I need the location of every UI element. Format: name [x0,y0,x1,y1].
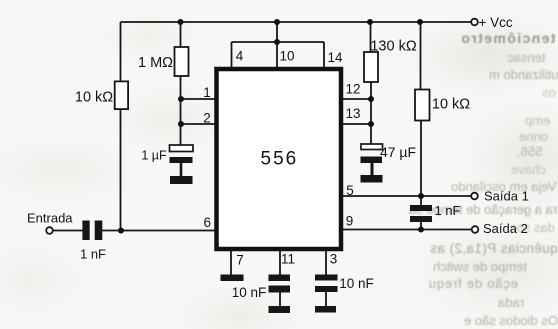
svg-text:130 kΩ: 130 kΩ [370,39,416,55]
svg-text:Saída 1: Saída 1 [484,189,529,204]
svg-text:1 µF: 1 µF [141,149,167,163]
svg-text:14: 14 [327,50,343,65]
svg-text:2: 2 [203,111,211,126]
svg-text:1: 1 [203,85,211,100]
svg-text:9: 9 [346,214,354,229]
svg-text:1 MΩ: 1 MΩ [138,55,173,71]
svg-text:12: 12 [345,82,360,97]
svg-text:5: 5 [346,183,354,198]
svg-text:Saída 2: Saída 2 [483,221,528,236]
svg-text:556: 556 [261,148,299,169]
svg-text:10 nF: 10 nF [339,276,374,291]
svg-text:10 kΩ: 10 kΩ [432,97,470,113]
svg-text:1 nF: 1 nF [434,203,460,218]
svg-text:1 nF: 1 nF [80,247,106,262]
svg-text:10 nF: 10 nF [232,285,267,300]
svg-text:10: 10 [279,49,294,64]
svg-text:4: 4 [236,49,244,64]
svg-text:13: 13 [345,106,360,121]
svg-text:10 kΩ: 10 kΩ [75,90,113,106]
svg-text:+ Vcc: + Vcc [479,15,513,30]
svg-text:Entrada: Entrada [27,211,73,226]
svg-text:47 µF: 47 µF [380,144,416,160]
svg-text:6: 6 [204,215,212,230]
svg-text:3: 3 [330,252,338,267]
svg-text:7: 7 [236,253,244,268]
svg-text:11: 11 [281,252,295,267]
